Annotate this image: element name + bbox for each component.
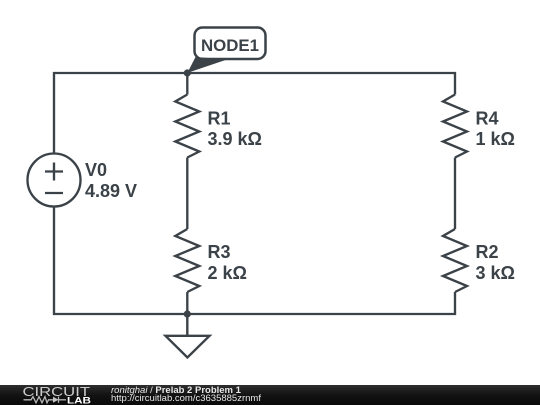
svg-text:3 kΩ: 3 kΩ bbox=[476, 263, 515, 283]
svg-text:V0: V0 bbox=[85, 160, 107, 180]
svg-text:3.9 kΩ: 3.9 kΩ bbox=[208, 129, 262, 149]
svg-text:NODE1: NODE1 bbox=[201, 36, 259, 55]
svg-text:R1: R1 bbox=[208, 109, 231, 129]
svg-text:4.89 V: 4.89 V bbox=[85, 181, 137, 201]
svg-text:R4: R4 bbox=[476, 109, 499, 129]
svg-text:http://circuitlab.com/c3635885: http://circuitlab.com/c3635885zrnmf bbox=[111, 393, 261, 404]
svg-text:R3: R3 bbox=[208, 242, 231, 262]
svg-text:R2: R2 bbox=[476, 242, 499, 262]
svg-text:2 kΩ: 2 kΩ bbox=[208, 263, 247, 283]
svg-text:LAB: LAB bbox=[67, 396, 91, 405]
svg-text:1 kΩ: 1 kΩ bbox=[476, 129, 515, 149]
